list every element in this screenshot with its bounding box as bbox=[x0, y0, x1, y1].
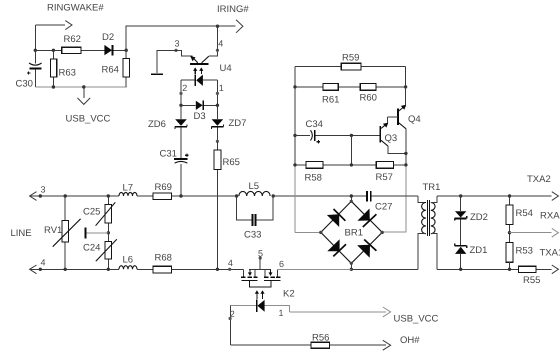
wire IRING# riser and line bbox=[126, 26, 217, 50]
node ZD1 bottom bbox=[459, 268, 462, 271]
svg-text:5: 5 bbox=[258, 249, 263, 259]
capacitor C33 with loop bbox=[237, 196, 274, 241]
pin 5 of K2 bbox=[258, 249, 263, 270]
svg-text:RXA: RXA bbox=[540, 211, 560, 222]
capacitor C25 (trimmer) bbox=[83, 196, 115, 233]
resistor R63 bbox=[50, 50, 76, 87]
wire to USB_VCC bbox=[290, 307, 391, 317]
pin 2 of U4 bbox=[179, 83, 187, 95]
svg-text:TR1: TR1 bbox=[423, 182, 441, 193]
node BR1 top vertex bbox=[350, 200, 353, 203]
resistor R64 bbox=[102, 50, 130, 87]
wire R56 to OH# arrow bbox=[329, 340, 390, 350]
wire R69 to L5 bbox=[172, 195, 237, 197]
svg-text:C24: C24 bbox=[83, 243, 100, 254]
resistor R55 bbox=[519, 266, 541, 286]
node C25/C24 junction bbox=[107, 231, 110, 234]
svg-text:C31: C31 bbox=[160, 149, 177, 160]
wire U4 pin1 drop bbox=[216, 80, 218, 105]
node IRING junction bbox=[216, 25, 219, 28]
zener ZD1 bbox=[455, 243, 488, 269]
transistor Q4 bbox=[388, 87, 421, 153]
node C25 top bbox=[107, 194, 110, 197]
node row2 right bbox=[404, 85, 407, 88]
svg-text:OH#: OH# bbox=[400, 335, 420, 346]
svg-text:R55: R55 bbox=[523, 275, 540, 286]
svg-text:IRING#: IRING# bbox=[217, 4, 249, 15]
pin 4 of K2 bbox=[228, 258, 233, 271]
wire TXA2 row bbox=[437, 192, 558, 201]
wire R68 to K2 bbox=[172, 268, 244, 270]
svg-text:D2: D2 bbox=[102, 32, 114, 43]
svg-text:R62: R62 bbox=[64, 34, 81, 45]
zener ZD7 bbox=[211, 105, 246, 141]
node BR1 top wire junction bbox=[350, 194, 353, 197]
capacitor C24 (trimmer) bbox=[83, 233, 117, 269]
svg-text:R65: R65 bbox=[223, 157, 240, 168]
pin 6 of K2 bbox=[279, 259, 284, 269]
LED of K2 bbox=[230, 300, 289, 312]
node ZD2 top bbox=[459, 194, 462, 197]
resistor R53 bbox=[506, 243, 533, 270]
svg-text:3: 3 bbox=[175, 39, 180, 49]
svg-text:USB_VCC: USB_VCC bbox=[394, 314, 439, 325]
node bottom row right bbox=[404, 163, 407, 166]
svg-text:1: 1 bbox=[219, 83, 224, 93]
wire OH# row bbox=[230, 344, 311, 346]
text LINE bbox=[11, 228, 32, 239]
svg-text:ZD6: ZD6 bbox=[148, 119, 166, 130]
node IRING riser / D2 cathode bbox=[125, 49, 128, 52]
node BR1 right vertex bbox=[381, 231, 384, 234]
node R63 bottom bbox=[52, 85, 55, 88]
signal arrow RINGWAKE# bbox=[35, 21, 72, 30]
svg-text:R58: R58 bbox=[305, 173, 322, 184]
wire oscillator bottom row y=164.9 bbox=[295, 164, 406, 166]
LED of U4 bbox=[181, 74, 217, 86]
pin 1 of K2 bbox=[279, 308, 284, 318]
wire K2 pin6 to BR1 and TR1 bbox=[278, 268, 419, 270]
net label RXA bbox=[540, 211, 560, 222]
capacitor C27 bbox=[367, 191, 418, 212]
net label RINGWAKE# bbox=[47, 3, 104, 14]
pin 2 of K2 bbox=[229, 306, 235, 346]
node L5 left bbox=[235, 194, 238, 197]
node pin4 bbox=[39, 268, 42, 271]
svg-text:BR1: BR1 bbox=[345, 228, 363, 239]
net label TXA1 bbox=[540, 248, 560, 259]
svg-text:4: 4 bbox=[41, 258, 46, 268]
svg-text:R64: R64 bbox=[102, 65, 119, 76]
svg-text:R54: R54 bbox=[516, 208, 533, 219]
svg-text:Q3: Q3 bbox=[385, 133, 398, 144]
capacitor C34 (polarized) bbox=[295, 119, 380, 143]
inductor L7 bbox=[119, 183, 137, 197]
capacitor C31 (polarized) bbox=[160, 149, 189, 197]
wire oscillator left vertical bbox=[294, 66, 296, 232]
svg-text:Q4: Q4 bbox=[408, 114, 421, 125]
node Q3/Q4 emitter junction bbox=[404, 152, 407, 155]
stub plate at C25/C24 junction bbox=[85, 227, 108, 238]
wire L7 to R69 bbox=[137, 195, 153, 197]
resistor R68 bbox=[153, 253, 172, 273]
resistor R56 bbox=[311, 333, 329, 349]
net label IRING# bbox=[217, 4, 249, 15]
BR1 diode top-left bbox=[327, 209, 346, 227]
wire row2 y=86.9 bbox=[295, 86, 406, 88]
node C31 junction bbox=[179, 194, 182, 197]
wire left vertical to BR1 left vertex bbox=[295, 231, 321, 233]
svg-text:R56: R56 bbox=[312, 333, 329, 344]
svg-text:U4: U4 bbox=[220, 63, 232, 74]
pin 1 of U4 bbox=[216, 83, 224, 95]
svg-text:R61: R61 bbox=[322, 95, 339, 106]
wire right vertical to bottom row bbox=[382, 153, 406, 232]
wire L5 to BR1/C27 bbox=[273, 195, 367, 197]
svg-text:4: 4 bbox=[228, 258, 233, 268]
node at R62 left bbox=[34, 49, 37, 52]
transistor Q3 bbox=[380, 117, 406, 153]
resistor R59 bbox=[341, 53, 361, 70]
svg-text:1: 1 bbox=[279, 308, 284, 318]
node L5 right bbox=[272, 194, 275, 197]
node R54 top bbox=[508, 194, 511, 197]
wire USB_VCC rail y=87 bbox=[35, 86, 127, 88]
node R65 top bbox=[216, 140, 219, 143]
node BR1 bottom wire junction bbox=[350, 268, 353, 271]
resistor R69 bbox=[153, 182, 172, 200]
varistor RV1 bbox=[44, 196, 81, 269]
svg-text:K2: K2 bbox=[283, 289, 295, 300]
svg-text:L5: L5 bbox=[249, 181, 260, 192]
wire oscillator right vertical upper bbox=[405, 66, 407, 106]
resistor R65 bbox=[214, 141, 240, 269]
node BR1 left vertex bbox=[319, 231, 322, 234]
wire U4 base to ground bbox=[157, 50, 176, 73]
pin 4 of U4 bbox=[216, 26, 224, 52]
node BR1 bottom vertex bbox=[350, 262, 353, 265]
node C34/R58 junction bbox=[350, 134, 353, 137]
K2 light arrows bbox=[255, 290, 265, 299]
resistor R58 bbox=[305, 162, 324, 184]
svg-text:ZD7: ZD7 bbox=[229, 118, 247, 129]
zener ZD2 bbox=[455, 196, 488, 246]
node pin3 bbox=[39, 194, 42, 197]
svg-text:ZD1: ZD1 bbox=[470, 245, 488, 256]
svg-text:USB_VCC: USB_VCC bbox=[66, 114, 111, 125]
ground bbox=[151, 73, 163, 75]
resistor R62 bbox=[62, 34, 81, 54]
transformer TR1 bbox=[418, 182, 440, 269]
node row2 left bbox=[293, 85, 296, 88]
wire tip row y=196 bbox=[30, 195, 119, 197]
BR1 diode bottom-left bbox=[327, 239, 346, 256]
U4 light arrows bbox=[193, 67, 203, 73]
resistor R57 bbox=[376, 162, 394, 183]
node R53 bottom bbox=[508, 268, 511, 271]
svg-text:ZD2: ZD2 bbox=[470, 212, 488, 223]
svg-text:RV1: RV1 bbox=[44, 225, 62, 236]
net label USB_VCC bbox=[394, 314, 439, 325]
diode D3 bbox=[181, 101, 217, 122]
svg-text:L7: L7 bbox=[123, 183, 134, 194]
svg-text:R53: R53 bbox=[516, 246, 533, 257]
svg-text:4: 4 bbox=[218, 39, 223, 49]
svg-text:6: 6 bbox=[279, 259, 284, 269]
node D3 left bbox=[179, 104, 182, 107]
resistor R60 bbox=[360, 84, 377, 104]
node R63 top bbox=[52, 49, 55, 52]
svg-text:R57: R57 bbox=[376, 172, 393, 183]
wire top row y=50.3 bbox=[35, 49, 126, 51]
signal arrow IRING# bbox=[218, 20, 243, 33]
svg-text:C34: C34 bbox=[306, 119, 323, 130]
svg-text:C27: C27 bbox=[375, 202, 392, 213]
svg-text:TXA1: TXA1 bbox=[540, 248, 560, 259]
inductor L5 bbox=[239, 181, 270, 196]
svg-text:R69: R69 bbox=[155, 182, 172, 193]
svg-text:C25: C25 bbox=[83, 207, 100, 218]
svg-text:D3: D3 bbox=[194, 111, 206, 122]
relay K2 mosfet pair bbox=[241, 269, 295, 299]
node RV1 top bbox=[63, 194, 66, 197]
svg-text:RINGWAKE#: RINGWAKE# bbox=[47, 3, 104, 14]
wire C34 junction drop bbox=[350, 135, 352, 165]
node R65 bottom bbox=[216, 268, 219, 271]
resistor R54 bbox=[506, 196, 533, 243]
svg-text:R60: R60 bbox=[360, 93, 377, 104]
svg-text:LINE: LINE bbox=[11, 228, 32, 239]
node bottom row center bbox=[350, 163, 353, 166]
node D3 right bbox=[216, 104, 219, 107]
node C34 row left bbox=[293, 134, 296, 137]
net label TXA2 bbox=[527, 174, 551, 185]
svg-text:C30: C30 bbox=[16, 79, 33, 90]
svg-text:R59: R59 bbox=[342, 53, 359, 64]
wire L6 to R68 bbox=[137, 268, 153, 270]
bridge BR1 diamond bbox=[321, 196, 382, 269]
op-amp U4 phototransistor bbox=[176, 50, 232, 74]
svg-text:C33: C33 bbox=[244, 230, 261, 241]
svg-text:3: 3 bbox=[41, 185, 46, 195]
node C24 bottom bbox=[107, 268, 110, 271]
zener ZD6 bbox=[148, 105, 187, 158]
BR1 diode bottom-right bbox=[357, 240, 376, 258]
power symbol USB_VCC bbox=[66, 87, 111, 125]
BR1 diode top-right bbox=[357, 209, 376, 228]
inductor L6 bbox=[119, 255, 137, 270]
svg-text:TXA2: TXA2 bbox=[527, 174, 551, 185]
wire U4 pin2 drop bbox=[180, 80, 182, 105]
wire TXA1 bottom row bbox=[437, 265, 558, 274]
svg-text:2: 2 bbox=[182, 83, 187, 93]
node RXA junction bbox=[508, 231, 511, 234]
resistor R61 bbox=[322, 84, 339, 106]
pin 3 of U4 bbox=[174, 39, 179, 53]
node RV1 bottom bbox=[63, 268, 66, 271]
svg-text:2: 2 bbox=[230, 309, 235, 319]
wire oscillator top row y=66.3 bbox=[295, 65, 406, 67]
net label OH# bbox=[400, 335, 420, 346]
wire RXA row bbox=[510, 228, 559, 237]
wire bottom row left y=269.3 bbox=[30, 268, 119, 270]
capacitor C30 (polarized) bbox=[16, 50, 42, 89]
diode D2 bbox=[102, 32, 114, 55]
node bottom row left bbox=[293, 163, 296, 166]
wire RINGWAKE# riser bbox=[34, 25, 36, 50]
connector arrow pin 3 LINE bbox=[30, 185, 46, 201]
svg-text:R63: R63 bbox=[59, 68, 76, 79]
connector arrow pin 4 LINE bbox=[30, 258, 46, 274]
node USB_VCC tap bbox=[82, 85, 85, 88]
svg-text:R68: R68 bbox=[155, 253, 172, 264]
svg-text:L6: L6 bbox=[123, 255, 134, 266]
